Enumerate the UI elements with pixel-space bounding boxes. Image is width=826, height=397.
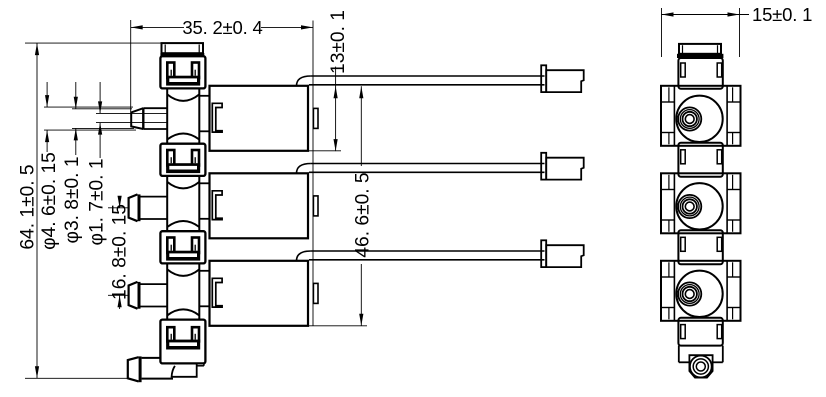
valve block 3 with port (side view) (661, 261, 741, 321)
connector housing 3 (side view) (678, 230, 722, 264)
valve block 2 with port (side view) (661, 173, 741, 233)
valve block 1 with port (side view) (661, 86, 741, 146)
solenoid coil 2 with retaining clip (front view) (199, 173, 318, 238)
dimension 15±0.1 body width (662, 4, 813, 57)
manifold body segment 2 (front view) (167, 176, 199, 231)
lead wire 1 with terminal connector (front view) (297, 65, 584, 92)
dimension 35.2±0.4 overall width (131, 17, 313, 326)
connector housing 4 (side view) (678, 318, 722, 346)
manifold body segment 3 (front view) (167, 263, 199, 319)
svg-text:15±0. 1: 15±0. 1 (752, 4, 812, 25)
outlet port (side view) (679, 346, 723, 378)
svg-text:46. 6±0. 5: 46. 6±0. 5 (352, 172, 373, 257)
svg-text:64. 1±0. 5: 64. 1±0. 5 (18, 164, 39, 249)
svg-text:13±0. 1: 13±0. 1 (328, 10, 349, 74)
manifold body segment 1 (front view) (167, 88, 199, 143)
solenoid coil 1 with retaining clip (front view) (199, 86, 318, 151)
connector housing 4 with terminal bracket (front view) (160, 320, 205, 364)
svg-text:φ1. 7±0. 1: φ1. 7±0. 1 (86, 159, 107, 246)
lead wire 2 with terminal connector (front view) (297, 153, 584, 180)
inlet tube with taper collar, station 1 (front view) (96, 108, 167, 129)
terminal cap (side view) (677, 44, 723, 58)
lead wire 3 with terminal connector (front view) (297, 240, 584, 267)
svg-text:φ3. 8±0. 1: φ3. 8±0. 1 (62, 157, 83, 244)
terminal cap, station 1 (front view) (160, 43, 204, 56)
svg-text:φ4. 6±0. 15: φ4. 6±0. 15 (39, 152, 60, 250)
dimension φ3.8±0.1 tube diameter (62, 82, 134, 243)
dimension 13±0.1 coil height (309, 10, 350, 151)
svg-text:35. 2±0. 4: 35. 2±0. 4 (182, 17, 262, 38)
outlet elbow nozzle (front view) (128, 356, 204, 382)
solenoid coil 3 with retaining clip (front view) (199, 261, 318, 326)
dimension φ1.7±0.1 bore diameter (86, 82, 107, 245)
connector housing 2 (side view) (678, 143, 722, 177)
svg-text:16. 8±0. 15: 16. 8±0. 15 (110, 204, 131, 300)
dimension 46.6±0.5 stack height (309, 86, 374, 326)
connector housing 1 with terminal bracket (front view) (160, 56, 205, 88)
connector housing 2 with terminal bracket (front view) (160, 144, 205, 176)
dimension 16.8±0.15 port pitch (108, 196, 131, 309)
hose barb, station 3 (front view) (129, 282, 168, 309)
connector housing 3 with terminal bracket (front view) (160, 231, 205, 263)
dimension 64.1±0.5 overall height (18, 43, 161, 378)
connector housing 1 (side view) (678, 58, 722, 89)
dimension φ4.6±0.15 collar diameter (39, 82, 136, 250)
hose barb, station 2 (front view) (129, 194, 168, 221)
